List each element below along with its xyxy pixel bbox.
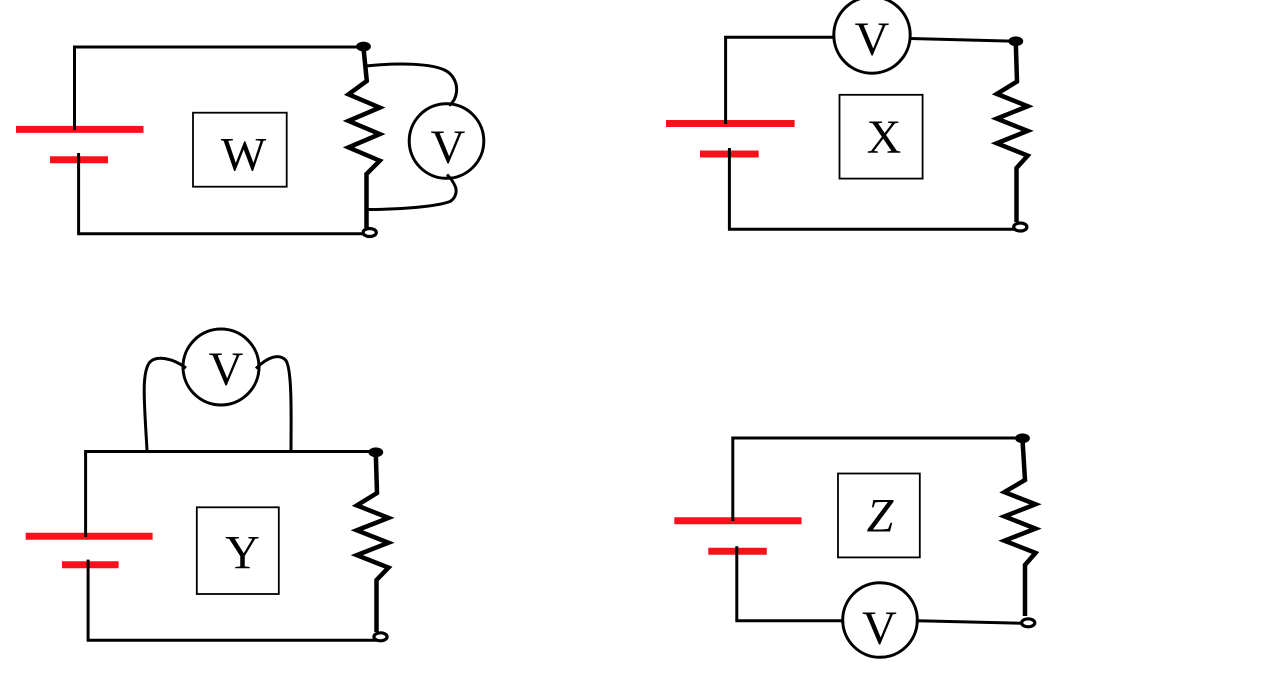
svg-text:V: V [431, 121, 466, 174]
svg-text:V: V [209, 343, 244, 396]
svg-text:V: V [855, 13, 890, 66]
svg-text:V: V [862, 602, 897, 655]
svg-text:Z: Z [867, 490, 895, 543]
svg-text:Y: Y [225, 527, 260, 580]
svg-text:W: W [221, 129, 267, 182]
svg-text:X: X [867, 111, 902, 164]
